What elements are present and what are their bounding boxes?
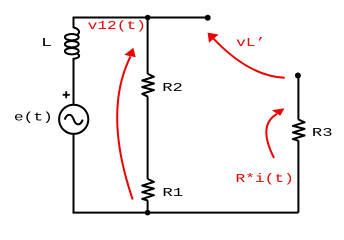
voltage source e(t) <box>59 105 88 134</box>
resistor R2 <box>142 74 154 97</box>
wire right branch above R3 <box>297 76 299 120</box>
wire middle branch below R1 <box>147 200 149 212</box>
resistor R3 <box>293 120 305 141</box>
annotation arrow vL' <box>208 33 285 78</box>
svg-text:R*i(t): R*i(t) <box>236 173 294 186</box>
wire bottom horizontal <box>73 212 299 214</box>
wire middle branch between R2 and R1 <box>147 97 149 180</box>
svg-text:R1: R1 <box>162 187 183 200</box>
resistor R1 <box>142 179 154 201</box>
annotation arrow v12(t) <box>117 48 136 200</box>
wire top horizontal <box>74 17 207 19</box>
svg-text:e(t): e(t) <box>14 111 53 124</box>
wire below source <box>73 134 75 213</box>
svg-text:R3: R3 <box>312 127 333 140</box>
svg-text:v12(t): v12(t) <box>88 20 146 33</box>
inductor L <box>65 28 79 59</box>
node R3 top terminal <box>295 73 301 79</box>
node top-right terminal <box>205 15 211 21</box>
wire left vertical above inductor <box>73 17 75 29</box>
svg-text:vL’: vL’ <box>236 37 265 50</box>
annotation arrow R*i(t) <box>266 108 284 158</box>
source polarity + <box>63 91 70 98</box>
svg-text:L: L <box>41 36 52 50</box>
node junction bottom of middle branch <box>145 210 151 216</box>
node junction top of middle branch <box>145 15 151 21</box>
svg-text:R2: R2 <box>162 82 183 95</box>
wire between inductor and source <box>73 58 75 105</box>
wire right branch below R3 <box>297 141 299 213</box>
wire middle branch upper <box>147 18 149 75</box>
